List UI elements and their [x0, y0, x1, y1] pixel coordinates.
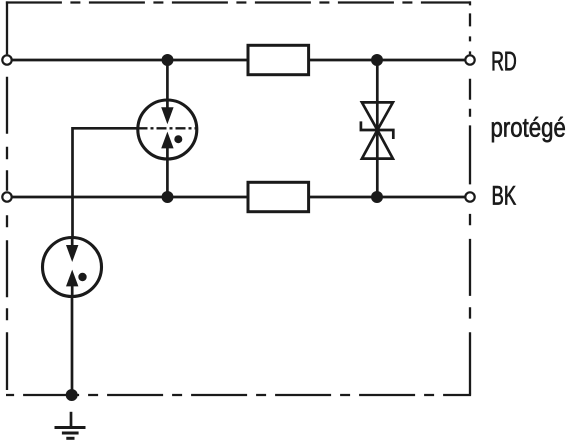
- GDT1 electrode arrow (down): [161, 107, 173, 124]
- wire: RD line right segment: [309, 59, 465, 62]
- resistor (decoupling element, BK line): [248, 182, 309, 211]
- TVS suppressor diode D1 upper triangle: [362, 102, 393, 130]
- label RD: [493, 52, 516, 71]
- enclosure dashed border: right side middle (between terminals): [469, 66, 471, 194]
- GDT1 dash-dot electrode line: [138, 127, 198, 129]
- terminal: right RD (protected): [465, 55, 474, 64]
- terminal: left RD (unprotected): [2, 55, 11, 64]
- ground: bar 1: [55, 426, 86, 429]
- TVS suppressor diode D1 lower triangle: [362, 130, 393, 159]
- resistor (decoupling element, RD line): [248, 45, 309, 74]
- GDT2 electrode arrow (down): [66, 245, 78, 262]
- ground: bar 3: [66, 437, 74, 440]
- GDT2 electrode arrow (up): [66, 270, 78, 287]
- wire: TVS diode vertical branch: [376, 60, 379, 197]
- ground: stem: [70, 412, 73, 427]
- enclosure dashed border: top side: [6, 1, 471, 3]
- TVS suppressor diode D1 zener bar with hooks: [361, 121, 393, 139]
- wire: BK line left segment: [12, 196, 248, 199]
- junction dot: RD line / GDT1: [162, 54, 174, 66]
- wire: BK line right segment: [309, 196, 465, 199]
- wire: GDT2 internal top stub: [71, 238, 74, 246]
- gas discharge tube GDT1 (between RD and BK): [138, 100, 197, 159]
- wire: GDT1 bottom lead (tube to BK line): [166, 148, 169, 197]
- enclosure dashed border: right side upper (corner to RD terminal): [469, 1, 471, 54]
- enclosure dashed border: left side lower (BK terminal to bottom corner): [6, 202, 8, 390]
- terminal: left BK (unprotected): [2, 192, 11, 201]
- junction dot: BK line / TVS: [371, 191, 383, 203]
- label BK: [493, 186, 516, 205]
- wire: GDT1 internal bottom stub: [166, 148, 169, 160]
- enclosure dashed border: left side middle (between terminals): [6, 66, 8, 191]
- enclosure dashed border: left side upper (corner to left RD terminal): [6, 1, 8, 54]
- wire: GDT1 top lead (RD line to tube): [166, 60, 169, 108]
- junction dot: RD line / TVS: [371, 54, 383, 66]
- junction dot: BK line / GDT1: [162, 191, 174, 203]
- junction dot: earth node on bottom border: [66, 389, 78, 401]
- ground: bar 2: [62, 432, 79, 435]
- wire: GDT1 left lead turning down to GDT2: [73, 128, 139, 245]
- enclosure dashed border: right side lower (BK terminal to bottom corner): [469, 202, 471, 394]
- wire: RD line left segment: [12, 59, 248, 62]
- enclosure dashed border: bottom side: [6, 394, 471, 396]
- wire: GDT2 to earth junction: [71, 296, 74, 395]
- GDT1 electrode arrow (up): [161, 132, 173, 149]
- wire: GDT2 internal bottom stub: [71, 286, 74, 296]
- GDT2 radioactive dot mark: [78, 273, 86, 281]
- label protégé: [492, 117, 565, 142]
- gas discharge tube GDT2 (to earth): [43, 238, 102, 297]
- GDT1 radioactive dot mark: [174, 135, 182, 143]
- wire: GDT1 internal top stub: [166, 99, 169, 108]
- terminal: right BK (protected): [465, 192, 474, 201]
